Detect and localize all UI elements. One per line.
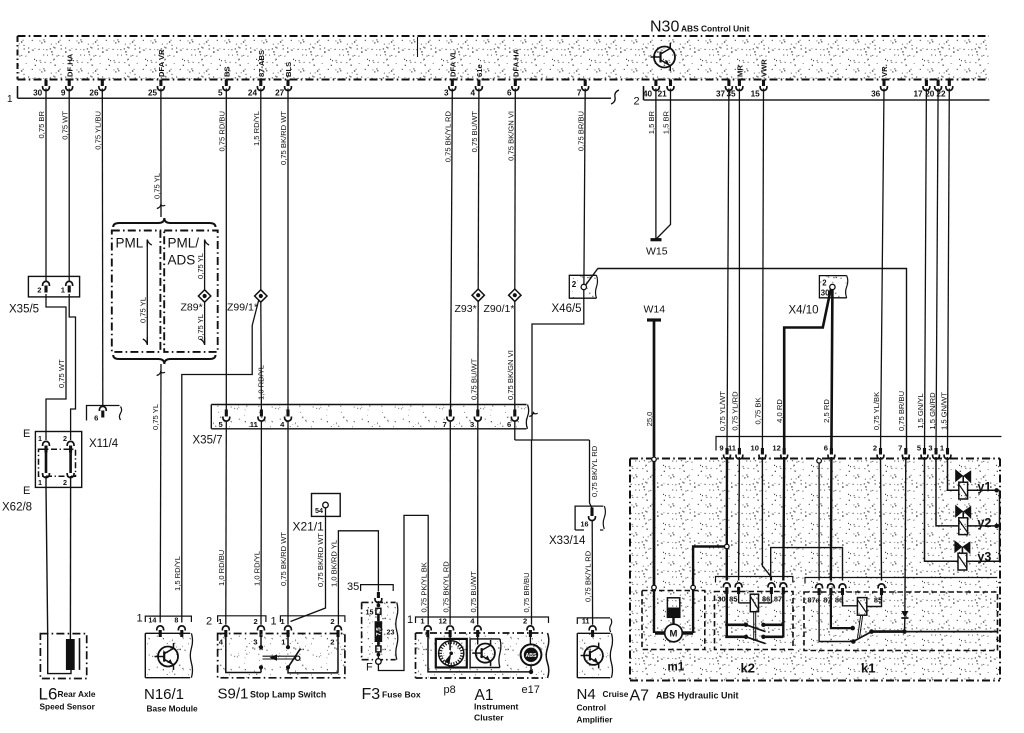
N30 pin 15: [762, 80, 765, 87]
svg-text:2: 2: [330, 617, 334, 626]
svg-text:1,5 BR: 1,5 BR: [647, 110, 656, 134]
svg-text:m1: m1: [668, 662, 685, 674]
wire 0,75 YL/WT pin37 to A7 pin 9: [727, 89, 729, 453]
N30 pin 17: [925, 80, 928, 87]
k1 pin 86: [839, 584, 846, 589]
wire 1,0 BK/RD YL S9/1 to F3: [338, 531, 378, 625]
wire 1,0 RD/BU X35/7 pin5 to S9/1: [225, 422, 228, 625]
solenoid valve y2: [956, 506, 963, 517]
svg-text:85: 85: [729, 595, 737, 604]
X35/7 pin 11: [260, 410, 263, 417]
svg-text:0,75 YL/BU: 0,75 YL/BU: [94, 111, 103, 150]
svg-text:1,5 GN/YL: 1,5 GN/YL: [916, 393, 925, 428]
wire A7 pin11 to k2 85: [738, 457, 741, 581]
wire 1,5 GN/RD pin20 to A7 pin 3: [936, 89, 938, 453]
svg-text:2: 2: [253, 617, 257, 626]
k1 coil: [843, 595, 858, 606]
svg-text:PML: PML: [116, 236, 144, 251]
svg-text:X11/4: X11/4: [89, 438, 119, 450]
svg-text:1: 1: [38, 478, 42, 487]
wire 0,75 BR pin30 to X35/5: [45, 89, 47, 282]
svg-text:1,0 RD/YL: 1,0 RD/YL: [257, 365, 266, 400]
PML/ADS box: [164, 231, 218, 352]
svg-text:1: 1: [38, 434, 42, 443]
brace under PML boxes: [113, 355, 215, 364]
svg-text:0,75 BR/BU: 0,75 BR/BU: [576, 111, 585, 151]
svg-text:25,0: 25,0: [645, 412, 654, 427]
junction on border to k1 87a: [817, 459, 822, 464]
wire A7 pin1 to valve y1: [948, 457, 959, 490]
svg-text:2: 2: [206, 616, 212, 628]
N30 pin 5: [225, 80, 228, 87]
svg-text:35: 35: [726, 90, 736, 99]
connector bracket F3: [361, 585, 394, 591]
svg-text:y1: y1: [977, 480, 991, 494]
N30 pin 37: [727, 80, 730, 87]
svg-text:0,75 BK/GN VI: 0,75 BK/GN VI: [507, 111, 516, 161]
A7 pin 3: [934, 448, 937, 455]
connector X11/4: [87, 406, 120, 421]
wire 0,75 BK/GN VI Z90/1 to X35/7 pin 6: [514, 302, 516, 410]
N30 pin 36: [882, 80, 885, 87]
N30 pin 6: [514, 80, 517, 87]
wire 0,75 BU/WT X35/7 pin3 to A1 pin 4: [477, 422, 479, 625]
svg-text:S9/1: S9/1: [218, 686, 249, 703]
svg-text:0,75 BK/YL RD: 0,75 BK/YL RD: [444, 110, 453, 162]
svg-text:Stop Lamp Switch: Stop Lamp Switch: [250, 690, 326, 700]
m1 motor circuit: [653, 590, 655, 634]
relay k1 plug bracket: [805, 578, 997, 584]
svg-text:0,75 YL/WT: 0,75 YL/WT: [718, 391, 727, 431]
svg-text:25: 25: [148, 89, 158, 98]
k2 coil: [738, 594, 740, 603]
N30 pin 9: [68, 80, 71, 87]
svg-text:DFA HA: DFA HA: [512, 49, 521, 77]
connector X21/1: [312, 494, 341, 517]
svg-text:5: 5: [218, 89, 223, 98]
svg-text:14: 14: [148, 616, 156, 625]
A7 pin 9: [725, 448, 728, 455]
svg-text:87-ABS: 87-ABS: [257, 50, 266, 77]
wire 0,75 BK/RD WT pin27 to X35/7 pin 4: [287, 89, 289, 410]
bus line 1: [17, 86, 19, 98]
svg-text:6: 6: [824, 444, 828, 453]
svg-text:Instrument: Instrument: [474, 702, 519, 712]
diode wire A7 pin7: [904, 457, 907, 611]
cruise control amplifier N4: [577, 633, 611, 677]
svg-text:0,75 YL/RD: 0,75 YL/RD: [731, 391, 740, 431]
svg-text:Z89*: Z89*: [181, 302, 203, 314]
svg-text:2: 2: [63, 434, 67, 443]
svg-text:4: 4: [471, 89, 476, 98]
connector X33/14: [575, 506, 603, 530]
wire 1,0 RD/YL Z99/1 to X35/7 pin 11: [260, 303, 263, 410]
S9/1 linkage: [263, 655, 297, 657]
svg-text:M: M: [670, 629, 678, 640]
k2 pin 85: [735, 583, 742, 588]
svg-text:k2: k2: [741, 661, 755, 676]
wire 2,5 RD X4/10 to A7 pin 6: [831, 290, 832, 453]
PML/ADS internal wire lower 0,75 YL: [204, 303, 206, 346]
svg-text:36: 36: [871, 90, 881, 99]
svg-text:X21/1: X21/1: [293, 520, 325, 534]
svg-text:1,0 RD/YL: 1,0 RD/YL: [252, 551, 261, 586]
N30 pin 22: [948, 80, 951, 87]
svg-text:X4/10: X4/10: [789, 305, 819, 317]
k1 armature link: [858, 615, 861, 638]
svg-text:X62/8: X62/8: [2, 502, 32, 514]
connector bracket N16/1: [145, 616, 191, 622]
svg-text:A7: A7: [630, 688, 650, 705]
wire 0,75 RD/BU pin5 to X35/7 pin 5: [225, 89, 227, 410]
svg-text:7,5: 7,5: [375, 627, 382, 636]
pump motor box m1: [642, 591, 705, 650]
svg-text:Fuse Box: Fuse Box: [382, 690, 421, 700]
relay k2 box: [715, 592, 794, 650]
svg-text:27: 27: [275, 89, 285, 98]
wire 0,75 BK/YL RD X33/14 to N4 pin 11: [591, 521, 593, 625]
k2 armature link: [753, 612, 755, 641]
svg-text:40: 40: [643, 90, 653, 99]
svg-text:0,75 YL/BK: 0,75 YL/BK: [872, 392, 881, 430]
k1 pin 85: [878, 584, 885, 589]
svg-text:k1: k1: [861, 661, 875, 676]
connector sleeve Z99/1*: [255, 290, 267, 302]
W14 junction on A7 border: [652, 457, 657, 462]
svg-text:12: 12: [438, 617, 446, 626]
A7 pin 6: [830, 448, 833, 455]
k2 contacts: [725, 623, 746, 626]
X35/7 pin 5: [225, 410, 228, 417]
connector sleeve Z89*: [198, 290, 210, 302]
svg-text:Amplifier: Amplifier: [577, 715, 614, 725]
N30 band section divider: [417, 37, 419, 57]
connector X35/7: [211, 405, 528, 429]
N30 pin 25: [159, 80, 162, 87]
diode: [901, 611, 908, 618]
A7 pin 11: [738, 448, 741, 455]
ABS warning lamp e17: [521, 644, 542, 665]
bus line 2: [643, 86, 645, 100]
k2 pin 30 internal: [726, 594, 728, 638]
N30 pin 4: [477, 80, 480, 87]
wire 0,75 BK/YL RD pin3 to X35/7 pin 7: [451, 89, 453, 410]
svg-text:p8: p8: [444, 684, 456, 696]
N30 pin 35: [738, 80, 741, 87]
wire A7 pin3 to valve y2: [936, 457, 959, 526]
svg-text:N16/1: N16/1: [144, 686, 184, 703]
wire 0,75 BU/WT Z93 to X35/7 pin 3: [477, 302, 479, 410]
svg-text:0,75 YL: 0,75 YL: [196, 314, 205, 340]
svg-text:11: 11: [250, 420, 259, 429]
svg-text:21: 21: [658, 90, 668, 99]
svg-text:0,75 YL: 0,75 YL: [139, 297, 148, 323]
wire 0,75 YL/BK pin36 to A7 pin 2: [881, 89, 885, 453]
k2 pin 86: [768, 583, 775, 588]
ABS hydraulic unit A7 box: [630, 459, 1000, 681]
svg-text:0,75 BU/WT: 0,75 BU/WT: [469, 358, 478, 400]
svg-text:Control: Control: [577, 703, 607, 713]
A7 pin 12: [783, 448, 786, 455]
svg-text:DFA VR: DFA VR: [157, 49, 166, 77]
A7 pin 10: [761, 448, 764, 455]
svg-text:Rear Axle: Rear Axle: [58, 689, 96, 699]
k2 pin 30: [723, 583, 730, 588]
svg-text:11: 11: [728, 444, 737, 453]
svg-text:0,75 BR: 0,75 BR: [37, 110, 46, 138]
svg-text:24: 24: [248, 89, 258, 98]
svg-text:1,5 GN/RD: 1,5 GN/RD: [928, 392, 937, 430]
k1 switch lever: [853, 632, 871, 642]
connector sleeve Z90/1*: [509, 289, 521, 301]
wire X46/5 to A7 pin 7 horizontal run: [598, 269, 907, 453]
wire 1,5 RD/YL branch to N16/1 pin 8: [182, 301, 259, 623]
svg-text:61e: 61e: [475, 64, 484, 77]
svg-text:0,75 BU/WT: 0,75 BU/WT: [470, 111, 479, 153]
svg-text:2: 2: [37, 286, 41, 295]
svg-text:11: 11: [582, 617, 590, 626]
svg-text:3: 3: [928, 444, 932, 453]
connector sleeve Z93*: [472, 289, 484, 301]
N30 pin 20: [937, 80, 940, 87]
svg-text:0,75 BK/YL RD: 0,75 BK/YL RD: [590, 445, 599, 497]
svg-text:1: 1: [271, 616, 277, 628]
motor M: [655, 631, 693, 634]
svg-text:23: 23: [387, 628, 395, 637]
k1 pin 87a internal: [819, 595, 853, 642]
wire 1,0 RD/YL X35/7 pin11 to S9/1: [260, 422, 262, 625]
wires X62/8 to L6: [46, 487, 48, 635]
svg-text:2: 2: [523, 617, 527, 626]
svg-text:3: 3: [470, 420, 474, 429]
wire 0,75 YL/RD pin35 to A7 pin 11: [738, 89, 740, 453]
svg-text:0,75 RD/BU: 0,75 RD/BU: [218, 111, 227, 152]
PML internal wire 0,75 YL: [147, 240, 152, 247]
svg-text:35: 35: [347, 581, 359, 593]
k2 pin 87: [780, 583, 787, 588]
svg-text:ABS: ABS: [526, 653, 537, 659]
connector bracket A7: [716, 437, 1002, 451]
svg-text:15: 15: [366, 608, 374, 617]
instrument cluster A1 box: [416, 633, 549, 678]
wire m1 to k2 pin 30: [693, 547, 724, 587]
svg-text:0,75 YL: 0,75 YL: [151, 404, 160, 430]
svg-text:ADS: ADS: [168, 253, 196, 268]
wire 1,5 RD/YL pin24 to Z99/1: [260, 89, 262, 290]
svg-text:N30: N30: [650, 19, 679, 36]
svg-text:F: F: [366, 662, 373, 674]
svg-text:0,75 BR/BU: 0,75 BR/BU: [897, 391, 906, 431]
svg-text:30: 30: [717, 595, 725, 604]
wire 1,5 BR pin40: [655, 89, 657, 240]
svg-text:e17: e17: [522, 684, 540, 696]
svg-text:26: 26: [89, 89, 99, 98]
connector X62/8: [35, 432, 81, 488]
wire 0,75 YL pin25 to PML brace: [160, 89, 162, 218]
svg-text:0,75 BK/RD WT: 0,75 BK/RD WT: [279, 111, 288, 165]
wire A7 pin6 to k1 87: [830, 457, 833, 581]
wire 0,75 BK/YL RD X35/7 pin7 to A1 pin 12: [449, 422, 451, 625]
k1 output to valves return: [904, 631, 997, 633]
X35/7 pin 7: [449, 410, 452, 417]
svg-text:2: 2: [572, 280, 577, 289]
A7 motor feed wire: [653, 462, 656, 587]
k1 pin 87: [828, 584, 835, 589]
svg-text:W14: W14: [644, 304, 666, 316]
svg-text:9: 9: [719, 444, 723, 453]
N30 internal electronic-unit icon U: [654, 47, 675, 68]
brace over PML boxes: [113, 218, 215, 227]
N30 pin 7: [584, 80, 587, 87]
A1 internal transistor unit: [477, 633, 479, 645]
svg-text:X35/5: X35/5: [9, 304, 39, 316]
svg-text:7: 7: [898, 444, 902, 453]
solenoid valve y1: [956, 470, 963, 481]
S9/1 switch lever right pole: [287, 636, 289, 647]
svg-text:17: 17: [913, 90, 923, 99]
svg-text:y2: y2: [977, 516, 991, 530]
A7 pin 7: [904, 448, 907, 455]
wire 0,75 YL/BU pin26 to X11/4: [101, 89, 104, 407]
wire 1,5 GN/YL pin17 to A7 pin 5: [925, 89, 927, 453]
svg-text:Base Module: Base Module: [147, 704, 199, 714]
svg-text:37: 37: [716, 90, 726, 99]
svg-text:7: 7: [442, 420, 446, 429]
svg-text:VWR: VWR: [760, 59, 769, 77]
wire 25,0 W14 to A7: [653, 322, 656, 457]
svg-text:9: 9: [61, 89, 66, 98]
svg-text:Cruise: Cruise: [603, 689, 629, 699]
svg-text:10: 10: [751, 444, 759, 453]
svg-text:F3: F3: [362, 686, 381, 703]
svg-text:0,75 PK/YL BK: 0,75 PK/YL BK: [419, 562, 428, 612]
svg-text:3: 3: [444, 89, 449, 98]
svg-text:1,5 RD/YL: 1,5 RD/YL: [173, 556, 182, 591]
connector X35/5: [28, 276, 79, 297]
N30 pin 30: [44, 80, 47, 87]
A7 pin 2: [879, 448, 882, 455]
svg-text:86: 86: [762, 595, 770, 604]
ABS control unit N30 box: [18, 37, 989, 79]
svg-text:BS: BS: [223, 66, 232, 77]
svg-text:0,75 YL: 0,75 YL: [152, 173, 161, 199]
wire A7 pin10 to k2 86: [762, 457, 771, 581]
svg-text:ABS Hydraulic Unit: ABS Hydraulic Unit: [656, 691, 739, 701]
connector bracket S9/1 left: [218, 616, 266, 622]
wire A7 pin9 down to k2 junction: [726, 457, 729, 544]
connector bracket A1: [416, 617, 549, 623]
svg-text:6: 6: [507, 420, 511, 429]
wire X46/5 down jog: [532, 290, 584, 441]
svg-text:7: 7: [577, 89, 582, 98]
svg-text:1,0 BK/RD YL: 1,0 BK/RD YL: [329, 540, 338, 587]
svg-text:87: 87: [774, 595, 782, 604]
wire junction X35/7 pin6 / X46/5 / A1 / X33/14: [515, 422, 592, 625]
connector X4/10: [819, 276, 846, 298]
svg-text:Z90/1*: Z90/1*: [484, 303, 515, 315]
svg-text:DFA VL: DFA VL: [449, 50, 458, 77]
X35/7 pin 4: [286, 410, 289, 417]
svg-text:3: 3: [253, 638, 257, 647]
svg-text:Speed Sensor: Speed Sensor: [40, 702, 96, 712]
connector X46/5 with switch contact: [569, 275, 596, 298]
relay k2 plug bracket: [716, 577, 793, 583]
A1 internal wire pin1 to e17 base: [428, 636, 531, 672]
N30 pin 3: [451, 80, 454, 87]
svg-text:Z93*: Z93*: [455, 303, 477, 315]
S9/1 internal wiring left pole: [226, 636, 261, 673]
svg-text:2: 2: [63, 478, 67, 487]
relay k1 box: [804, 592, 998, 651]
wire A7 pin12 to k2 87: [782, 457, 785, 581]
fuse box F3: [362, 602, 398, 659]
svg-text:1: 1: [7, 94, 13, 105]
wire 0,75 BR/BU pin7 to X46/5: [584, 89, 585, 285]
svg-text:X33/14: X33/14: [549, 535, 586, 547]
k2 pin 87 internal: [782, 594, 784, 638]
X35/7 pin 3: [476, 410, 479, 417]
svg-text:1,5 RD/YL: 1,5 RD/YL: [252, 111, 261, 146]
svg-text:1,5 GN/WT: 1,5 GN/WT: [940, 392, 949, 430]
svg-text:0,75 BK/RD WT: 0,75 BK/RD WT: [316, 533, 325, 587]
svg-text:0,75 BK/GN VI: 0,75 BK/GN VI: [506, 350, 515, 400]
N30 pin 21: [669, 80, 672, 87]
svg-text:0,75 BU/WT: 0,75 BU/WT: [469, 571, 478, 613]
PML/ADS internal wire upper 0,75 YL: [205, 240, 210, 247]
svg-text:30: 30: [33, 89, 43, 98]
svg-text:E: E: [23, 428, 30, 440]
svg-text:BLS: BLS: [284, 62, 293, 77]
svg-text:0,75 WT: 0,75 WT: [60, 111, 69, 140]
connector bracket S9/1 right: [280, 616, 345, 622]
N30 pin 40: [654, 80, 657, 87]
svg-text:0,75 YL: 0,75 YL: [196, 253, 205, 279]
N30 pin 24: [259, 80, 262, 87]
wire 0,75 BK/RD WT X35/7 pin4 to S9/1: [287, 422, 289, 625]
svg-text:8: 8: [174, 616, 178, 625]
twisted pair X35/5 to X62/8: [46, 294, 66, 440]
base module N16/1 box: [145, 633, 191, 677]
valves return line: [999, 490, 1001, 561]
wire 0,75 BK/RD WT X21/1 to S9/1: [291, 508, 326, 622]
svg-text:4,0 RD: 4,0 RD: [775, 399, 784, 423]
PML box: [112, 231, 161, 352]
svg-text:2: 2: [822, 279, 827, 288]
svg-text:ABS Control Unit: ABS Control Unit: [681, 24, 750, 34]
stop lamp switch S9/1 box: [218, 634, 345, 678]
wire 4,0 RD X4/10 to A7 pin 12: [784, 290, 831, 453]
wire 1,5 GN/WT pin22 to A7 pin 1: [948, 89, 950, 453]
wire 1,5 BR pin21: [656, 89, 670, 240]
wire 0,75 PK/YL BK F3 to A1 pin 1: [378, 515, 428, 670]
svg-text:X46/5: X46/5: [552, 303, 582, 315]
k1 pin 87a: [816, 584, 823, 589]
svg-text:16: 16: [581, 520, 589, 529]
svg-text:1,5 BR: 1,5 BR: [662, 110, 671, 134]
svg-text:0,75 BK: 0,75 BK: [754, 397, 763, 424]
svg-text:PML/: PML/: [168, 236, 200, 251]
svg-text:1,0 RD/BU: 1,0 RD/BU: [217, 550, 226, 586]
svg-text:2: 2: [873, 444, 877, 453]
svg-text:2: 2: [634, 96, 640, 108]
svg-text:54: 54: [315, 506, 323, 515]
svg-text:W15: W15: [646, 246, 668, 258]
svg-text:Z99/1*: Z99/1*: [227, 302, 258, 314]
svg-text:0,75 WT: 0,75 WT: [57, 359, 66, 388]
N30 pin 27: [286, 80, 289, 87]
svg-text:E: E: [23, 485, 30, 497]
svg-text:0,75 BK/YL RD: 0,75 BK/YL RD: [441, 561, 450, 613]
